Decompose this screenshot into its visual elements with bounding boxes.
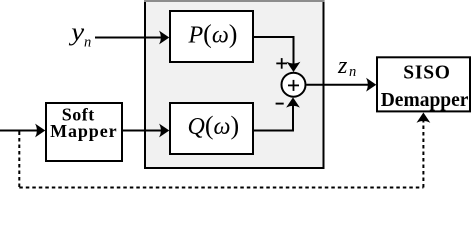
- svg-text:Q(ω): Q(ω): [188, 111, 240, 140]
- filter container box (shaded): [144, 1, 325, 168]
- block U2 SISO Demapper: [377, 57, 470, 111]
- block Q1 Q(omega): [170, 103, 253, 154]
- svg-text:SISO: SISO: [403, 63, 450, 84]
- dashed feedback wire (right riser into Demapper): [417, 113, 431, 188]
- dashed feedback wire (left drop): [18, 132, 20, 188]
- block U1 Soft Mapper: [46, 103, 122, 161]
- svg-text:y: y: [68, 18, 85, 46]
- wire Soft Mapper to Q: [122, 124, 169, 138]
- plus sign label (P branch): [276, 58, 287, 69]
- minus sign label (Q branch): [276, 103, 284, 105]
- wire y_n to P: [95, 31, 169, 45]
- svg-text:P(ω): P(ω): [188, 19, 238, 48]
- svg-text:Demapper: Demapper: [381, 90, 469, 111]
- wire Q output to summing junction: [253, 97, 300, 130]
- wire input to Soft Mapper: [0, 124, 45, 138]
- dashed feedback wire (bottom run): [19, 187, 423, 189]
- svg-text:n: n: [349, 64, 356, 80]
- summing junction S1: [282, 73, 306, 97]
- block P1 P(omega): [170, 11, 253, 62]
- svg-text:Mapper: Mapper: [50, 121, 117, 141]
- wire P output to summing junction: [253, 37, 300, 72]
- svg-text:z: z: [337, 53, 348, 79]
- wire z_n summing junction to SISO Demapper: [307, 78, 377, 92]
- svg-text:n: n: [84, 34, 91, 50]
